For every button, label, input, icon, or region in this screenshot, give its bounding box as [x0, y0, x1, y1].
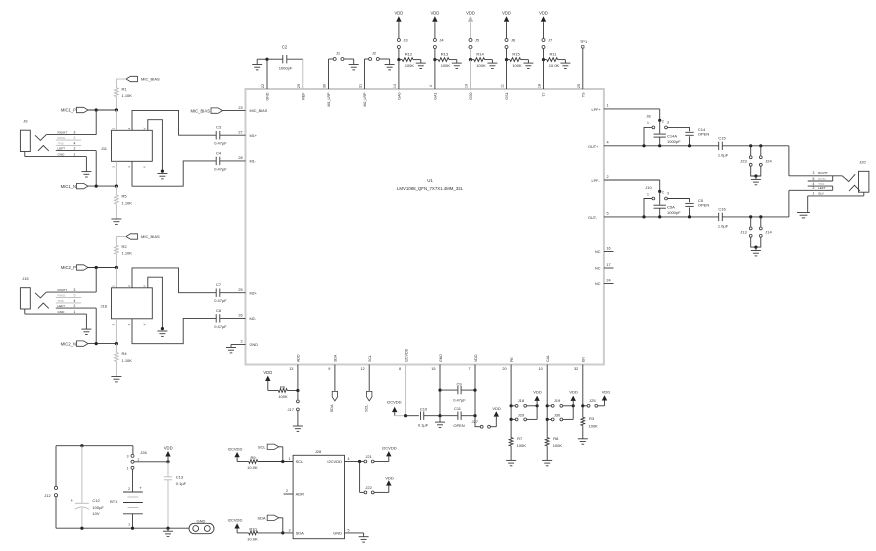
net CAL name [546, 355, 550, 362]
svg-text:J24: J24 [765, 158, 772, 163]
svg-text:V: V [142, 128, 146, 130]
wire J22 drop [360, 462, 364, 493]
net OUT+ wire pin 4 [604, 145, 719, 147]
svg-text:0.47µF: 0.47µF [214, 141, 227, 146]
svg-text:2: 2 [813, 186, 815, 190]
resistor R10 [237, 526, 258, 541]
jack pin GND 1 [25, 152, 87, 157]
svg-text:I2CVDD: I2CVDD [228, 446, 243, 451]
pin 22 GND wire [266, 59, 268, 89]
svg-text:OPEN: OPEN [453, 423, 464, 428]
power flag I2CVDD at R10 [228, 518, 243, 533]
wire mic vref to ground [148, 120, 163, 171]
wire VDD to R6 [268, 382, 279, 391]
svg-text:LMV1088_QFN_7X7X1.4MM_32L: LMV1088_QFN_7X7X1.4MM_32L [397, 186, 464, 191]
svg-text:J14: J14 [765, 229, 772, 234]
junction [95, 108, 118, 111]
pin 1 number [606, 104, 608, 108]
svg-text:100K: 100K [278, 394, 288, 399]
wire SDA flag [279, 518, 283, 533]
net M1+ name [250, 134, 258, 138]
svg-text:VDD: VDD [569, 390, 578, 395]
svg-text:100K: 100K [405, 63, 415, 68]
connector J20 label [859, 160, 866, 165]
connector J9 body [20, 130, 30, 151]
wire J10 pin3 to C5 [668, 199, 690, 203]
svg-text:12: 12 [360, 367, 364, 371]
jumper J30 [547, 412, 562, 420]
svg-text:MIC_BIAS: MIC_BIAS [190, 108, 210, 113]
svg-text:I2CVDD: I2CVDD [387, 399, 402, 404]
jumper J7 [542, 38, 553, 49]
svg-text:R13: R13 [441, 51, 449, 56]
resistor R2 [115, 244, 133, 255]
ground [157, 331, 167, 336]
svg-text:25: 25 [238, 288, 242, 292]
ground [751, 176, 761, 185]
ground [385, 65, 395, 70]
svg-text:3: 3 [667, 192, 669, 196]
net flag MIC1_N [61, 183, 88, 188]
net ADD name [297, 354, 301, 362]
op-amp U1 LMV1088 body [246, 89, 604, 365]
svg-text:1: 1 [813, 192, 815, 196]
svg-text:5: 5 [74, 136, 76, 140]
svg-text:1.0µF: 1.0µF [718, 152, 729, 157]
jumper J5 [469, 38, 480, 49]
svg-text:100K: 100K [517, 443, 527, 448]
svg-text:R12: R12 [405, 51, 413, 56]
svg-text:GND: GND [58, 153, 66, 157]
junction [469, 58, 472, 61]
svg-text:0.1µF: 0.1µF [176, 481, 187, 486]
svg-text:J21: J21 [365, 454, 372, 459]
ground [163, 528, 173, 536]
svg-text:I2CVDD: I2CVDD [382, 446, 397, 451]
wire MIC_BIAS to column [116, 79, 126, 88]
svg-text:100K: 100K [512, 63, 522, 68]
svg-text:I2CVDD: I2CVDD [327, 459, 342, 464]
svg-text:5: 5 [606, 212, 608, 216]
power flag I2CVDD at R9 [228, 446, 243, 461]
svg-text:T7: T7 [542, 93, 546, 97]
wire VDD to J7 [543, 23, 545, 39]
svg-text:1: 1 [647, 192, 649, 196]
svg-text:GND: GND [333, 530, 342, 535]
svg-text:I2CVDD: I2CVDD [228, 518, 243, 523]
svg-text:LEFT: LEFT [818, 186, 826, 190]
ground [435, 416, 445, 428]
junction [80, 444, 83, 447]
jack J20 pin RING 5 [808, 176, 833, 181]
svg-text:J20: J20 [859, 160, 866, 165]
wire mic out+ to cap [132, 110, 216, 135]
J11 pin labels [112, 127, 147, 168]
svg-text:15: 15 [431, 367, 435, 371]
jack J20 tip contact [842, 174, 855, 181]
net M2+ name [250, 291, 258, 295]
wire OUT- to jack [788, 190, 790, 217]
capacitor C10 [406, 407, 440, 428]
svg-text:SCL: SCL [258, 445, 267, 450]
pin 31 wire [365, 59, 369, 89]
pin 20 number [502, 367, 506, 371]
wire [115, 254, 117, 267]
pin 29 number [297, 84, 301, 88]
wire pin 9 [334, 365, 336, 392]
svg-text:1: 1 [128, 523, 130, 527]
wire J10 pin1 to out [644, 199, 652, 217]
junction [473, 389, 476, 418]
svg-text:J30: J30 [554, 412, 561, 417]
pin 11 number [501, 84, 505, 88]
svg-text:R3: R3 [589, 416, 595, 421]
capacitor C15 [718, 135, 729, 157]
svg-text:VDD: VDD [466, 11, 475, 16]
junction [265, 58, 268, 61]
junction [95, 185, 118, 188]
svg-text:0.47µF: 0.47µF [453, 398, 466, 403]
net OUT+ name [588, 145, 599, 149]
pin 3 number [289, 528, 291, 532]
svg-text:J17: J17 [288, 407, 295, 412]
svg-text:ADR: ADR [296, 492, 305, 497]
pin 29 REF wire [302, 59, 304, 89]
capacitor C12 [71, 446, 105, 529]
jumper J2 [369, 51, 380, 61]
svg-text:R14: R14 [476, 51, 484, 56]
svg-text:1: 1 [127, 467, 129, 471]
connector J15 body [20, 288, 30, 309]
svg-text:17: 17 [606, 263, 610, 267]
jack pin RIGHT 3 [46, 288, 96, 292]
pin 30 wire [329, 59, 334, 89]
wire J25 to VDD [598, 401, 605, 406]
jumper J24 [759, 146, 772, 166]
ground [452, 63, 462, 68]
svg-text:VDD: VDD [502, 11, 511, 16]
wire jack ring to N [95, 308, 97, 344]
wire R6 to node [287, 390, 298, 392]
svg-text:1.10K: 1.10K [122, 358, 133, 363]
svg-text:1000pF: 1000pF [667, 139, 681, 144]
svg-text:16: 16 [606, 246, 610, 250]
net GA0 name [397, 93, 401, 100]
wire C15 onward [722, 145, 789, 147]
wire C4 to pin 28 [220, 160, 246, 162]
svg-text:GND: GND [250, 343, 259, 347]
svg-text:18: 18 [538, 84, 542, 88]
wire [88, 185, 116, 187]
svg-text:MIC2_P: MIC2_P [61, 265, 76, 270]
wire node to pin 4 [434, 60, 436, 89]
svg-text:1000pF: 1000pF [279, 66, 293, 71]
wire jack gnd [85, 157, 87, 172]
svg-text:13: 13 [289, 367, 293, 371]
svg-text:1: 1 [606, 104, 608, 108]
svg-text:3: 3 [289, 528, 291, 532]
jumper J6 [505, 38, 516, 49]
junction [536, 404, 539, 407]
svg-text:C11: C11 [454, 406, 462, 411]
wire jack gnd [85, 314, 87, 329]
wire R14 to ground [485, 60, 493, 64]
svg-text:MIC2_N: MIC2_N [61, 341, 76, 346]
svg-text:2: 2 [662, 191, 664, 195]
ground [523, 63, 533, 68]
wire J17 to ground [297, 411, 299, 426]
resistor R7 [509, 436, 526, 448]
junction [433, 58, 436, 61]
svg-text:SCL: SCL [364, 405, 368, 412]
capacitor C13 [164, 462, 187, 528]
wire power bottom rail [56, 527, 189, 529]
jack ring contact [38, 303, 49, 308]
svg-text:GND: GND [266, 92, 270, 100]
svg-text:10: 10 [538, 367, 542, 371]
net GND pin2 name [250, 343, 259, 347]
svg-text:OUT-: OUT- [588, 216, 598, 220]
J28 pin 4 wire [345, 457, 360, 462]
svg-text:GND: GND [439, 354, 443, 362]
svg-text:VDD: VDD [474, 354, 478, 362]
svg-text:J11: J11 [101, 146, 108, 151]
svg-text:VDD: VDD [492, 406, 501, 411]
pin 2 number [606, 175, 608, 179]
wire jumpers join [751, 237, 761, 247]
svg-text:20: 20 [502, 367, 506, 371]
svg-text:V: V [142, 166, 146, 168]
svg-text:M1-: M1- [250, 160, 257, 164]
pin 4 number [606, 141, 608, 145]
net SCL name [368, 355, 372, 362]
wire C16 onward [722, 216, 789, 218]
power flag VDD over J25 [602, 390, 611, 401]
svg-text:4: 4 [74, 299, 76, 303]
svg-text:SCL: SCL [368, 355, 372, 362]
svg-text:SDA: SDA [334, 354, 338, 362]
wire R15 to ground [521, 60, 529, 64]
resistor R9 [237, 455, 258, 470]
jack tip contact [35, 135, 46, 141]
svg-text:MIC1_P: MIC1_P [61, 108, 76, 113]
wire R12 to ground [413, 60, 421, 64]
wire pin 20 [510, 365, 512, 438]
svg-text:TNS: TNS [58, 299, 64, 303]
svg-text:1: 1 [74, 153, 76, 157]
jack J20 ring contact [849, 185, 860, 191]
testpoint GND [189, 519, 214, 534]
pin 4 number [429, 85, 433, 87]
svg-text:LEFT: LEFT [58, 304, 66, 308]
wire J4 to node [434, 49, 436, 60]
svg-text:C15: C15 [718, 135, 726, 140]
wire mic vref to ground [148, 277, 163, 328]
pin 10 number [538, 367, 542, 371]
svg-text:R15: R15 [512, 51, 520, 56]
svg-text:R4: R4 [122, 351, 128, 356]
svg-text:10.0K: 10.0K [549, 63, 560, 68]
capacitor C2 [267, 45, 303, 71]
svg-text:C7: C7 [216, 282, 222, 287]
wire pin 13 [297, 365, 299, 391]
power flag VDD over J7 [539, 11, 548, 23]
jumper J13 [740, 217, 752, 237]
jumper J8 [646, 114, 669, 129]
svg-text:R11: R11 [549, 51, 557, 56]
battery BT1 [110, 469, 143, 528]
pin 23 number [238, 106, 242, 110]
resistor R4 [115, 344, 133, 363]
svg-text:M2_LRP: M2_LRP [363, 92, 367, 107]
net flag MIC_BIAS pin23 [190, 108, 222, 113]
resistor R1 [115, 87, 133, 98]
svg-text:+: + [71, 498, 74, 503]
wire jack sleeve to ground [807, 196, 809, 213]
resistor R3 [581, 416, 598, 429]
wire J3 to node [398, 49, 400, 60]
junction [749, 144, 762, 147]
capacitor C11 [440, 406, 475, 428]
net T7 name [542, 93, 546, 97]
net OUT- name [588, 216, 598, 220]
U1 value label [397, 186, 464, 191]
wire node to ground [257, 59, 267, 64]
junction [404, 414, 407, 417]
svg-text:I2CVDD: I2CVDD [404, 348, 408, 362]
ground [487, 63, 497, 68]
svg-text:8: 8 [399, 367, 401, 371]
net M2- name [250, 317, 257, 321]
pin 25 number [577, 84, 581, 88]
svg-text:0.47µF: 0.47µF [214, 324, 227, 329]
ground [81, 329, 91, 334]
pin 9 number [328, 367, 330, 371]
wire J6 to node [506, 49, 508, 60]
svg-text:5: 5 [813, 177, 815, 181]
svg-text:4: 4 [606, 141, 608, 145]
ground [416, 63, 426, 68]
wire [88, 343, 116, 345]
svg-text:100K: 100K [589, 423, 599, 428]
svg-text:J22: J22 [365, 485, 372, 490]
power flag VDD over J4 [430, 11, 439, 23]
svg-text:MIC1_N: MIC1_N [61, 184, 76, 189]
net M2_LRP name [363, 92, 367, 107]
svg-text:R9: R9 [250, 455, 256, 460]
svg-text:1: 1 [647, 121, 649, 125]
ground [578, 439, 588, 444]
junction [161, 170, 164, 173]
connector J20 body [859, 171, 869, 192]
svg-text:J28: J28 [315, 449, 322, 454]
wire [115, 97, 117, 110]
junction [658, 119, 661, 122]
wire jack tip to P [95, 110, 97, 135]
wire J5 to node [470, 49, 472, 60]
net LPF+ name [592, 108, 602, 112]
svg-text:V: V [142, 285, 146, 287]
wire node to pin 14 [398, 60, 400, 89]
wire [88, 109, 116, 111]
net flag SCL down [364, 391, 372, 411]
junction [397, 58, 400, 61]
net M1_LRP name [327, 92, 331, 107]
jack pin LEFT 2 [56, 304, 96, 308]
net flag MIC_BIAS at R2 [126, 234, 160, 239]
junction [581, 404, 584, 407]
ground [506, 460, 516, 465]
wire pin 32 [582, 365, 584, 418]
pin 28 number [238, 156, 242, 160]
svg-text:R7: R7 [517, 436, 523, 441]
svg-text:1: 1 [74, 310, 76, 314]
testpoint TP1 [580, 39, 588, 48]
jumper J14 [759, 217, 772, 237]
svg-text:J16: J16 [101, 303, 108, 308]
svg-text:J29: J29 [518, 412, 525, 417]
svg-text:SDA: SDA [296, 530, 305, 535]
svg-text:SCL: SCL [296, 459, 305, 464]
svg-text:31: 31 [359, 84, 363, 88]
jack pin GND 1 [25, 309, 87, 314]
net flag MIC_BIAS at R1 [126, 76, 160, 81]
pin 8 number [399, 367, 401, 371]
junction [296, 389, 299, 392]
power flag VDD over J3 [394, 11, 403, 23]
junction [161, 327, 164, 330]
wire J27 to VDD [491, 417, 497, 427]
wire VDD to J3 [398, 23, 400, 39]
ground [751, 247, 761, 256]
net REF name [301, 92, 305, 100]
jumper J10 [645, 185, 669, 200]
svg-text:GS1: GS1 [505, 93, 509, 100]
svg-text:SDA: SDA [330, 404, 334, 412]
junction [95, 342, 118, 345]
junction [754, 174, 757, 177]
svg-text:VDD: VDD [394, 11, 403, 16]
wire J18 to VDD [527, 405, 537, 407]
jumper J1 [333, 51, 344, 61]
svg-text:R5: R5 [122, 194, 128, 199]
svg-text:1: 1 [289, 457, 291, 461]
junction [95, 266, 118, 269]
pin 31 number [359, 84, 363, 88]
wire pin 8 [405, 365, 407, 416]
jumper J4 [433, 38, 444, 49]
svg-text:3: 3 [667, 121, 669, 125]
net flag SDA down [330, 391, 338, 412]
svg-text:LPF+: LPF+ [592, 108, 602, 112]
jack pin RIGHT 3 [46, 131, 96, 135]
svg-text:2: 2 [662, 120, 664, 124]
wire to ground [115, 362, 117, 377]
power flag VDD over J6 [502, 11, 511, 23]
svg-text:RIGHT: RIGHT [58, 131, 68, 135]
svg-text:+: + [139, 485, 142, 490]
svg-text:VDD: VDD [533, 390, 542, 395]
pin 26 number [238, 314, 242, 318]
svg-text:1.10K: 1.10K [122, 250, 133, 255]
svg-text:25: 25 [577, 84, 581, 88]
junction [281, 460, 284, 463]
pin 12 number [360, 367, 364, 371]
junction [510, 404, 513, 421]
svg-text:11: 11 [501, 84, 505, 88]
U1 reference label [427, 178, 433, 183]
svg-text:7: 7 [468, 367, 470, 371]
